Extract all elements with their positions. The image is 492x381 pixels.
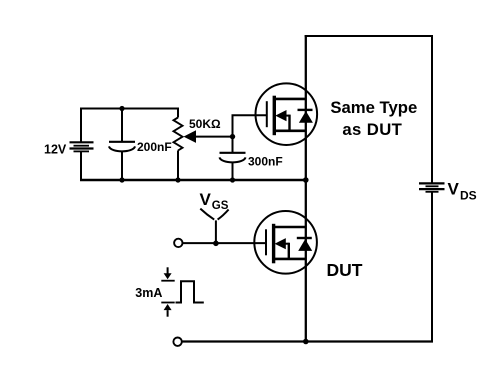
transistor Q1 Same Type as DUT: [255, 83, 317, 145]
wire resistor branch bottom: [177, 151, 179, 182]
VGS probe stem: [215, 220, 217, 243]
battery 12V source: [70, 142, 94, 151]
wire right branch upper (VDS positive): [431, 35, 433, 183]
svg-text:12V: 12V: [44, 142, 67, 156]
wire resistor branch top: [177, 108, 179, 118]
resistor R1 50K potentiometer: [174, 118, 183, 151]
wire 200nF branch top: [121, 109, 123, 142]
svg-text:3mA: 3mA: [135, 286, 162, 300]
wire wiper to junction: [195, 136, 233, 138]
terminal gate open circle: [174, 239, 182, 247]
capacitor C2 300nF: [220, 153, 246, 163]
svg-text:V: V: [200, 190, 212, 209]
transistor Q2 DUT: [254, 211, 317, 274]
svg-text:DUT: DUT: [327, 260, 363, 280]
node wiper / gate / 300nF junction: [230, 134, 235, 139]
wire 12V battery branch bottom: [80, 151, 82, 181]
wire bottom return: [182, 340, 433, 342]
wire bottom-left rail: [80, 179, 306, 182]
svg-text:GS: GS: [212, 200, 229, 212]
svg-text:300nF: 300nF: [248, 155, 283, 169]
svg-text:as DUT: as DUT: [342, 120, 402, 139]
node top rail / 200nF branch junction: [119, 106, 124, 111]
svg-text:50KΩ: 50KΩ: [189, 117, 221, 131]
wiper arrow of potentiometer: [184, 130, 197, 143]
wire top-left rail: [80, 108, 179, 110]
wire 300nF branch top: [232, 137, 234, 153]
terminal source open circle: [173, 338, 181, 346]
node bottom return / bus junction: [303, 339, 309, 345]
wire right branch lower (VDS negative): [431, 192, 433, 343]
3mA down arrow: [167, 267, 169, 274]
node VGS probe junction: [213, 241, 219, 247]
wire wiper junction up to Q1 gate: [233, 115, 268, 137]
wire gate input to Q2: [183, 242, 266, 244]
3mA up arrow: [164, 304, 172, 310]
3mA top level tick: [161, 280, 174, 282]
pulse waveform: [176, 281, 204, 302]
3mA bottom level tick: [161, 302, 174, 304]
node bottom rail / drain-source bus junction: [303, 177, 309, 183]
node bottom rail / resistor branch junction: [175, 177, 180, 182]
svg-text:Same Type: Same Type: [330, 98, 417, 117]
battery VDS source: [419, 183, 445, 191]
VGS probe right lead: [218, 210, 229, 220]
wire drain-source vertical bus: [305, 35, 307, 342]
VGS probe left lead: [200, 209, 214, 220]
capacitor C1 200nF: [109, 142, 135, 152]
svg-text:DS: DS: [460, 189, 477, 203]
svg-text:200nF: 200nF: [137, 140, 172, 154]
wire 12V battery branch top: [80, 108, 82, 143]
node bottom rail / 200nF branch junction: [119, 177, 124, 182]
wire 200nF branch bottom: [121, 151, 123, 181]
svg-text:V: V: [448, 179, 460, 198]
wire 300nF branch bottom: [232, 162, 234, 181]
wire top rail right section: [305, 35, 433, 37]
node bottom rail / 300nF branch junction: [230, 177, 235, 182]
